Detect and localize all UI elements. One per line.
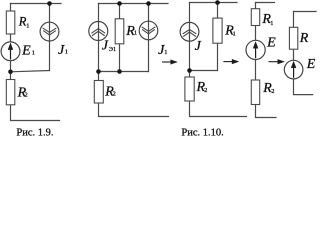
svg-text:E: E — [266, 36, 276, 51]
svg-text:J: J — [102, 39, 109, 54]
svg-text:Рис. 1.10.: Рис. 1.10. — [181, 128, 223, 139]
svg-text:R: R — [299, 31, 309, 46]
svg-text:1: 1 — [26, 22, 29, 29]
svg-text:2: 2 — [25, 92, 28, 99]
svg-text:J: J — [195, 39, 202, 54]
svg-text:E: E — [21, 44, 31, 59]
svg-text:1: 1 — [32, 50, 35, 57]
svg-text:1: 1 — [65, 49, 68, 56]
svg-text:2: 2 — [113, 91, 116, 98]
svg-text:1: 1 — [270, 20, 273, 27]
svg-text:1: 1 — [233, 30, 236, 37]
svg-text:E: E — [306, 57, 316, 72]
svg-text:1: 1 — [134, 30, 137, 37]
svg-text:1: 1 — [164, 49, 167, 56]
svg-text:2: 2 — [204, 87, 207, 94]
svg-text:Э1: Э1 — [109, 47, 116, 53]
svg-text:Рис. 1.9.: Рис. 1.9. — [16, 128, 53, 139]
svg-text:2: 2 — [271, 88, 274, 95]
